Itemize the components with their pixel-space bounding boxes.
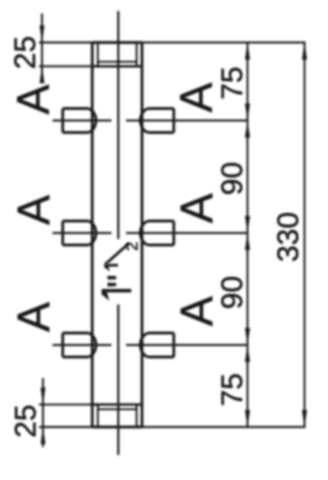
pipe size label: inch quote and fraction denominator bbox=[101, 242, 143, 288]
svg-text:90: 90 bbox=[216, 162, 249, 195]
port row 3 right stub outline bbox=[148, 333, 174, 357]
arrow 25 bottom upper bbox=[41, 388, 46, 405]
port row 1 centerline left bbox=[53, 120, 112, 122]
port row 1 left stub outline bbox=[63, 109, 89, 133]
bottom thread minor line left bbox=[97, 405, 99, 427]
svg-text:A: A bbox=[8, 195, 59, 225]
port row 3 centerline left bbox=[53, 344, 112, 346]
top edge extension line (right, to 330-dim) bbox=[142, 42, 306, 44]
svg-text:A: A bbox=[8, 84, 59, 114]
dimension line 25 top bbox=[41, 14, 43, 80]
pipe axis centerline (upper segment) bbox=[117, 11, 119, 239]
port row 2 centerline right / extension to dim bbox=[126, 232, 249, 234]
bottom edge extension line (right, to 330-dim) bbox=[142, 426, 306, 428]
svg-text:A: A bbox=[171, 193, 222, 223]
arrow 330 bottom bbox=[302, 410, 307, 427]
svg-text:": " bbox=[101, 274, 143, 288]
svg-text:A: A bbox=[171, 82, 222, 112]
pipe axis centerline (lower segment) bbox=[117, 305, 119, 456]
top thread end extension line (left, to 25-dim) bbox=[39, 65, 92, 67]
arrow 330 top bbox=[302, 43, 307, 60]
small "1" of fraction: flag bbox=[104, 264, 110, 272]
pipe right wall bbox=[141, 43, 144, 428]
port row 2 left stub weld arc bbox=[88, 221, 96, 245]
arrow 25 top upper bbox=[40, 26, 45, 43]
top thread end line bbox=[92, 65, 142, 67]
arrow chain top bbox=[245, 43, 250, 60]
bottom edge extension line (left, to 25-dim) bbox=[39, 426, 92, 428]
port row 1 right stub weld arc bbox=[140, 109, 148, 133]
bottom thread runout line bbox=[98, 408, 137, 410]
dimension chain line 75/90/90/75 bbox=[247, 43, 249, 428]
top thread runout line bbox=[98, 61, 137, 63]
dimension line 330 overall bbox=[304, 43, 306, 428]
bottom thread end extension line (left, to 25-dim) bbox=[39, 404, 92, 406]
bottom thread end line bbox=[92, 403, 142, 405]
svg-text:A: A bbox=[8, 302, 59, 332]
pipe left wall bbox=[91, 43, 94, 428]
top thread minor line right bbox=[136, 43, 138, 67]
svg-text:25: 25 bbox=[9, 36, 42, 69]
bottom thread minor line right bbox=[136, 405, 138, 427]
port row 2 left stub outline bbox=[63, 221, 89, 245]
pipe top end edge bbox=[92, 41, 142, 44]
arrows chain at port 3 bbox=[245, 328, 250, 362]
svg-text:25: 25 bbox=[10, 404, 43, 437]
port row 3 centerline right / extension to dim bbox=[126, 344, 249, 346]
port row 1 centerline right / extension to dim bbox=[126, 120, 249, 122]
small "1" of fraction: stem bbox=[104, 264, 118, 267]
svg-text:A: A bbox=[171, 296, 222, 326]
top edge extension line (left, to 25-dim) bbox=[39, 42, 92, 44]
arrow 25 bottom lower bbox=[41, 427, 46, 444]
port row 1 right stub outline bbox=[148, 109, 174, 133]
top thread minor line left bbox=[97, 43, 99, 67]
port row 1 left stub weld arc bbox=[88, 109, 96, 133]
port row 2 right stub outline bbox=[148, 221, 174, 245]
svg-text:330: 330 bbox=[272, 212, 305, 262]
port row 3 right stub weld arc bbox=[140, 333, 148, 357]
arrow 25 top lower bbox=[40, 66, 45, 83]
svg-text:75: 75 bbox=[216, 373, 249, 406]
pipe bottom end edge bbox=[92, 426, 142, 429]
svg-text:2: 2 bbox=[124, 242, 142, 251]
port row 2 right stub weld arc bbox=[140, 221, 148, 245]
dimension line 25 bottom bbox=[42, 378, 44, 447]
port row 2 centerline left bbox=[53, 232, 112, 234]
big "1" flag bbox=[102, 289, 110, 301]
pipe size label 1 inch: big "1" stem (drawn as vector, Arial-style foot-less) bbox=[102, 264, 132, 301]
arrow chain bottom bbox=[245, 410, 250, 427]
half-inch fraction slash of pipe size label bbox=[105, 243, 128, 264]
arrows chain at port 1 bbox=[245, 104, 250, 138]
arrows chain at port 2 bbox=[245, 216, 250, 250]
port row 3 left stub outline bbox=[63, 333, 89, 357]
port row 3 left stub weld arc bbox=[88, 333, 96, 357]
